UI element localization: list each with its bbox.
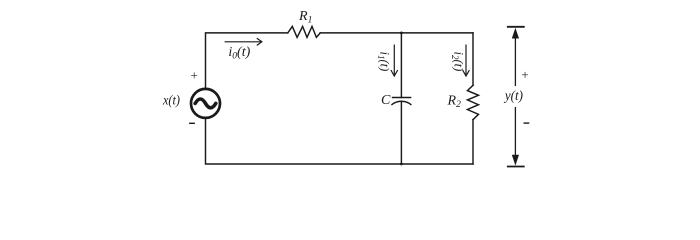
- output line lower: [514, 107, 516, 156]
- output arrow up: [512, 28, 519, 39]
- svg-text:i1(t): i1(t): [376, 52, 391, 72]
- junction node bottom: [400, 163, 403, 166]
- wire bottom-right segment: [401, 163, 473, 165]
- wire capacitor branch top: [400, 33, 402, 98]
- wire top-right segment: [320, 32, 473, 34]
- resistor R1: [288, 26, 320, 37]
- source minus sign: [189, 122, 195, 124]
- current arrow i1(t): [391, 45, 398, 77]
- source x(t) circle: [191, 89, 220, 118]
- svg-text:x(t): x(t): [162, 93, 180, 108]
- svg-text:i0(t): i0(t): [228, 45, 250, 62]
- svg-text:+: +: [521, 67, 528, 82]
- svg-text:y(t): y(t): [503, 89, 523, 104]
- source sine wave: [195, 99, 216, 108]
- svg-text:R1: R1: [298, 9, 312, 26]
- wire capacitor branch bottom: [400, 101, 402, 164]
- capacitor C top plate: [392, 97, 412, 99]
- wire R2 branch bottom: [472, 120, 474, 164]
- output y(t) dimension arrow top bar: [507, 26, 525, 28]
- wire R2 branch top: [472, 33, 474, 85]
- current arrow i2(t): [463, 45, 470, 77]
- resistor R2: [467, 85, 478, 119]
- output dimension arrow bottom bar: [507, 166, 525, 168]
- svg-text:i2(t): i2(t): [450, 52, 465, 72]
- wire left-bottom segment: [206, 119, 402, 164]
- svg-text:+: +: [191, 67, 198, 82]
- capacitor C curved plate: [391, 101, 411, 105]
- wire top-left segment: [206, 33, 288, 88]
- svg-text:R2: R2: [447, 93, 462, 110]
- output minus sign: [524, 122, 530, 124]
- output arrow down: [512, 155, 519, 166]
- svg-text:C: C: [381, 93, 391, 108]
- current arrow i0(t): [225, 38, 262, 45]
- junction node top: [400, 32, 403, 35]
- output line upper: [514, 38, 516, 86]
